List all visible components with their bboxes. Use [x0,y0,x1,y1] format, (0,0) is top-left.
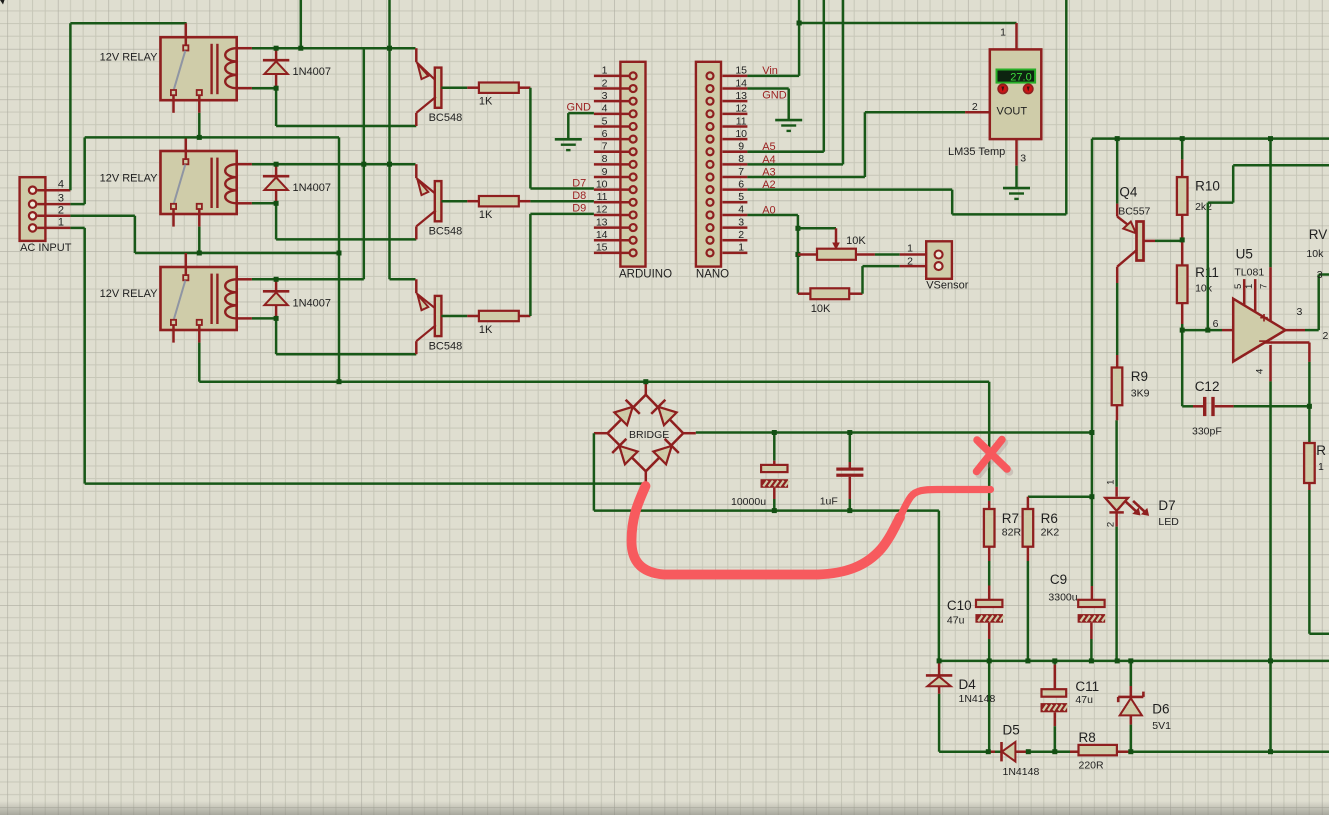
svg-text:LED: LED [1158,516,1179,528]
svg-text:7: 7 [738,166,744,178]
svg-text:1: 1 [602,65,608,77]
svg-text:A5: A5 [762,141,775,153]
svg-text:1K: 1K [479,209,493,221]
svg-text:1N4148: 1N4148 [1003,766,1040,778]
svg-text:1N4007: 1N4007 [293,297,332,309]
svg-text:2: 2 [738,229,744,241]
svg-text:BC548: BC548 [429,226,463,238]
svg-text:4: 4 [1255,369,1266,374]
svg-text:2: 2 [972,101,978,113]
svg-text:R8: R8 [1079,730,1096,745]
svg-text:2: 2 [907,255,913,267]
svg-text:15: 15 [596,242,608,254]
svg-text:C11: C11 [1075,679,1099,694]
svg-text:1: 1 [907,243,913,255]
svg-text:D4: D4 [959,677,977,692]
svg-text:R9: R9 [1131,369,1148,384]
svg-text:6: 6 [1213,318,1219,330]
svg-text:12V RELAY: 12V RELAY [100,173,159,185]
svg-text:3: 3 [1297,306,1303,318]
svg-text:10k: 10k [1195,283,1213,295]
svg-text:AC INPUT: AC INPUT [20,242,72,254]
svg-text:3: 3 [738,216,744,228]
svg-text:3: 3 [1317,269,1323,281]
svg-text:GND: GND [762,90,787,102]
svg-text:12V RELAY: 12V RELAY [100,51,159,63]
svg-text:10k: 10k [1306,248,1324,260]
svg-text:VSensor: VSensor [926,279,969,291]
svg-text:82R: 82R [1002,527,1022,539]
svg-text:BRIDGE: BRIDGE [629,429,669,441]
svg-text:1: 1 [58,216,64,228]
svg-text:11: 11 [597,191,608,203]
svg-text:10000u: 10000u [731,496,766,508]
svg-text:R10: R10 [1195,179,1220,194]
svg-text:D8: D8 [572,190,586,202]
svg-text:1: 1 [1318,461,1324,473]
svg-text:R7: R7 [1002,511,1019,526]
svg-text:A2: A2 [762,179,775,191]
svg-text:Q4: Q4 [1119,185,1138,200]
svg-text:D6: D6 [1152,702,1169,717]
svg-text:10K: 10K [846,235,866,247]
svg-text:2: 2 [1323,330,1329,342]
svg-text:220R: 220R [1079,760,1105,772]
svg-text:GND: GND [567,101,592,113]
svg-text:ARDUINO: ARDUINO [619,269,672,281]
svg-text:VOUT: VOUT [997,106,1028,118]
svg-text:330pF: 330pF [1192,426,1222,438]
svg-text:NANO: NANO [696,269,729,281]
svg-text:5V1: 5V1 [1152,720,1171,732]
svg-text:27.0: 27.0 [1010,71,1031,83]
svg-text:3: 3 [1020,153,1026,165]
svg-text:1: 1 [1106,480,1117,485]
svg-text:D9: D9 [572,203,586,215]
svg-text:13: 13 [735,90,747,102]
svg-text:12: 12 [596,204,608,216]
svg-text:8: 8 [738,153,744,165]
svg-text:1N4007: 1N4007 [293,66,332,78]
svg-text:2: 2 [602,77,608,89]
svg-text:5: 5 [602,115,608,127]
svg-text:D7: D7 [1158,498,1175,513]
svg-text:3300u: 3300u [1048,592,1077,604]
svg-text:TL081: TL081 [1234,267,1264,279]
svg-text:U5: U5 [1236,246,1253,261]
svg-text:A3: A3 [762,167,775,179]
svg-text:5: 5 [1233,284,1244,289]
svg-text:R: R [1316,443,1326,458]
svg-text:R6: R6 [1041,511,1058,526]
svg-text:10: 10 [735,128,747,140]
svg-text:6: 6 [738,178,744,190]
svg-text:9: 9 [602,166,608,178]
svg-text:BC548: BC548 [429,341,463,353]
svg-text:3: 3 [602,90,608,102]
svg-text:C10: C10 [947,598,972,613]
svg-text:2: 2 [1106,522,1117,527]
svg-text:4: 4 [738,204,744,216]
svg-text:C12: C12 [1195,379,1220,394]
svg-text:D7: D7 [572,177,586,189]
svg-text:D5: D5 [1003,723,1020,738]
svg-text:7: 7 [1259,284,1270,289]
svg-text:2K2: 2K2 [1041,527,1060,539]
svg-text:4: 4 [58,179,64,191]
svg-text:14: 14 [735,77,747,89]
svg-text:1N4148: 1N4148 [959,693,996,705]
svg-text:A4: A4 [762,154,775,166]
svg-text:10: 10 [596,178,608,190]
svg-text:2: 2 [58,204,64,216]
svg-text:5: 5 [738,191,744,203]
svg-text:6: 6 [602,128,608,140]
svg-text:4: 4 [602,103,608,115]
svg-text:1K: 1K [479,324,493,336]
svg-text:1N4007: 1N4007 [293,182,332,194]
svg-text:9: 9 [738,141,744,153]
svg-text:A0: A0 [762,204,775,216]
svg-text:C9: C9 [1050,572,1067,587]
svg-text:1uF: 1uF [820,495,838,507]
svg-text:15: 15 [735,65,747,77]
svg-text:8: 8 [602,153,608,165]
svg-text:1: 1 [738,242,744,254]
svg-text:1: 1 [1000,27,1006,39]
svg-text:+: + [1260,310,1269,327]
svg-text:BC548: BC548 [429,112,463,124]
svg-text:RV: RV [1309,227,1328,242]
svg-text:13: 13 [596,216,608,228]
svg-text:3: 3 [58,193,64,205]
svg-text:47u: 47u [1075,694,1093,706]
svg-text:10K: 10K [811,303,831,315]
svg-text:12: 12 [735,103,747,115]
svg-text:BC557: BC557 [1118,206,1150,218]
svg-text:12V RELAY: 12V RELAY [100,288,159,300]
svg-text:3K9: 3K9 [1131,388,1150,400]
svg-text:14: 14 [596,229,608,241]
svg-text:7: 7 [602,141,608,153]
svg-text:11: 11 [736,115,747,127]
svg-text:47u: 47u [947,615,965,627]
svg-text:1K: 1K [479,96,493,108]
svg-text:1: 1 [1244,284,1255,289]
svg-text:LM35 Temp: LM35 Temp [948,146,1005,158]
svg-text:Vin: Vin [762,65,778,77]
